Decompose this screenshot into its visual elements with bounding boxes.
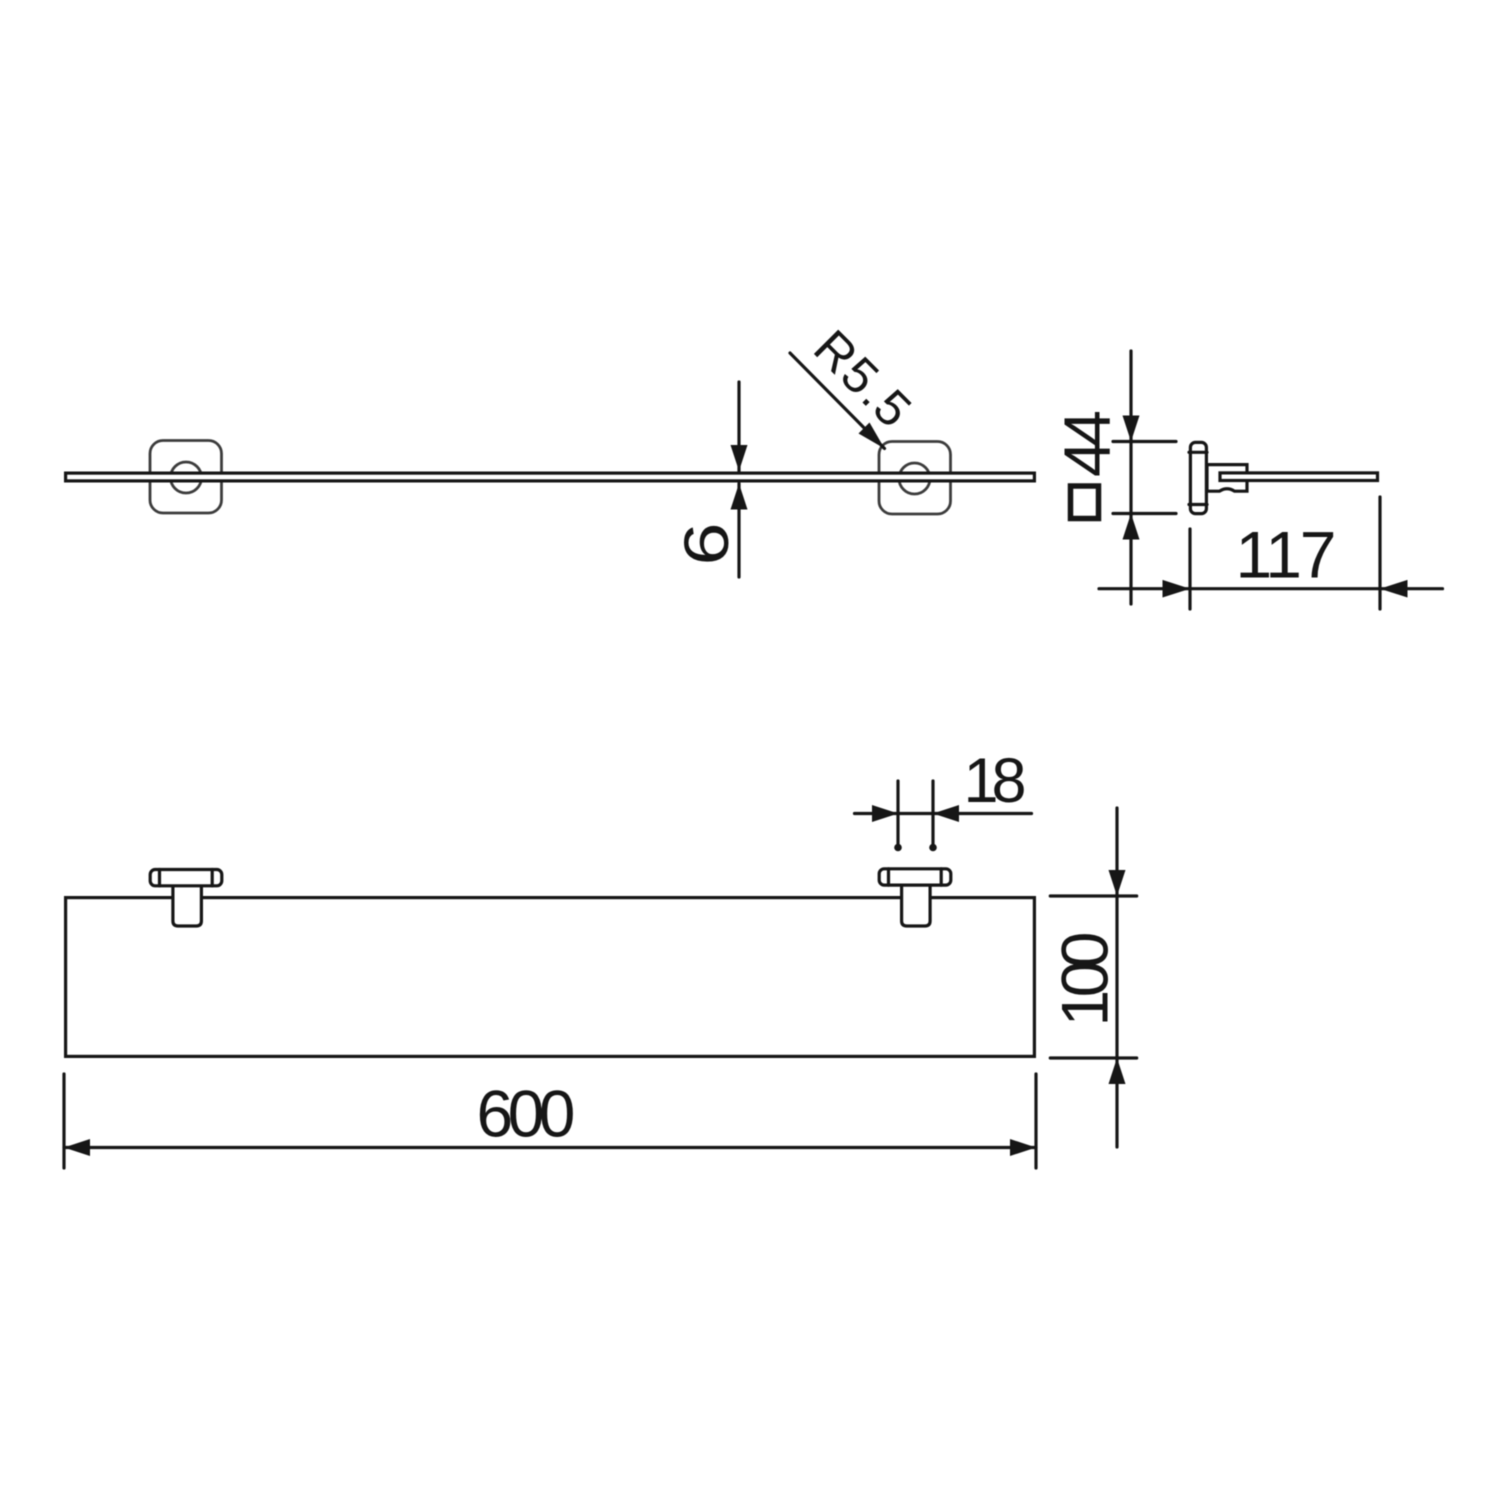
side view wall plate bottom cap line xyxy=(1189,503,1207,506)
side view wall plate top cap line xyxy=(1189,451,1207,454)
right bracket cap inner line right xyxy=(940,869,943,885)
dimension 100 top extension line xyxy=(1050,894,1136,897)
square symbol of dimension 44 xyxy=(1071,486,1099,519)
svg-text:R5.5: R5.5 xyxy=(803,319,922,438)
dimension 18 left extension dot xyxy=(894,844,902,852)
dimension 18 left extension line xyxy=(896,781,899,846)
svg-text:18: 18 xyxy=(964,746,1027,816)
dimension 600 left extension line xyxy=(62,1074,65,1168)
glass shelf (front view, thin bar) xyxy=(66,473,1035,481)
dimension 6 arrow up xyxy=(731,484,748,510)
glass shelf plan view rectangle xyxy=(66,898,1035,1057)
dimension 18 right extension dot xyxy=(929,844,937,852)
dimension 117 left arrow xyxy=(1163,580,1191,598)
dimension 117 right extension line xyxy=(1378,497,1381,609)
dimension 600 right arrow xyxy=(1010,1139,1036,1156)
svg-text:44: 44 xyxy=(1050,410,1124,477)
right bracket cap (plan view) xyxy=(879,869,951,885)
dimension 18 left arrow xyxy=(872,805,898,822)
left bracket cap inner line left xyxy=(158,870,161,886)
dimension 6 vertical line below glass xyxy=(737,484,740,578)
dimension 117 line xyxy=(1099,587,1380,590)
dimension 117 tail right xyxy=(1380,587,1443,590)
svg-text:117: 117 xyxy=(1236,518,1337,592)
left bracket (front view, rounded square wall plate) xyxy=(150,441,222,514)
side view holder arm with bottom notch xyxy=(1207,465,1247,492)
left bracket screw circle xyxy=(171,462,202,493)
right bracket cap inner line left xyxy=(887,869,890,885)
right bracket stem (plan view) xyxy=(902,886,931,926)
dimension 600 line xyxy=(64,1146,1036,1149)
dimension 44 vertical line xyxy=(1129,351,1132,604)
svg-text:6: 6 xyxy=(672,523,742,566)
dimension 18 right arrow xyxy=(933,805,959,822)
dimension 600 right extension line xyxy=(1034,1074,1037,1168)
dimension 44 arrow down xyxy=(1123,416,1140,442)
dimension 100 arrow up xyxy=(1109,1058,1126,1084)
dimension 18 right extension line xyxy=(931,781,934,846)
dimension 117 right arrow xyxy=(1380,580,1408,598)
dimension 6 vertical line above glass xyxy=(737,382,740,471)
left bracket cap (plan view) xyxy=(150,870,222,886)
dimension 6 arrow down xyxy=(731,445,748,471)
dimension 44 bottom extension line xyxy=(1113,512,1176,515)
dimension 100 bottom extension line xyxy=(1050,1056,1136,1059)
dimension 44 top extension line xyxy=(1113,440,1176,443)
R5.5 leader arrowhead xyxy=(859,423,885,449)
dimension 100 arrow down xyxy=(1109,870,1126,896)
svg-text:100: 100 xyxy=(1048,932,1122,1027)
right bracket screw circle xyxy=(899,463,930,494)
dimension 44 arrow up xyxy=(1123,514,1140,540)
dimension 600 left arrow xyxy=(64,1139,90,1156)
R5.5 leader line xyxy=(790,353,885,449)
side view wall plate xyxy=(1190,442,1206,513)
side view glass (thin bar) xyxy=(1220,473,1378,481)
right bracket (front view, rounded square wall plate) xyxy=(879,442,951,515)
left bracket stem (plan view) xyxy=(173,886,202,926)
dimension 18 line xyxy=(855,812,1032,815)
svg-text:600: 600 xyxy=(477,1077,576,1151)
left bracket cap inner line right xyxy=(211,870,214,886)
dimension 117 left extension line xyxy=(1188,529,1191,609)
dimension 100 vertical line xyxy=(1115,808,1118,1147)
